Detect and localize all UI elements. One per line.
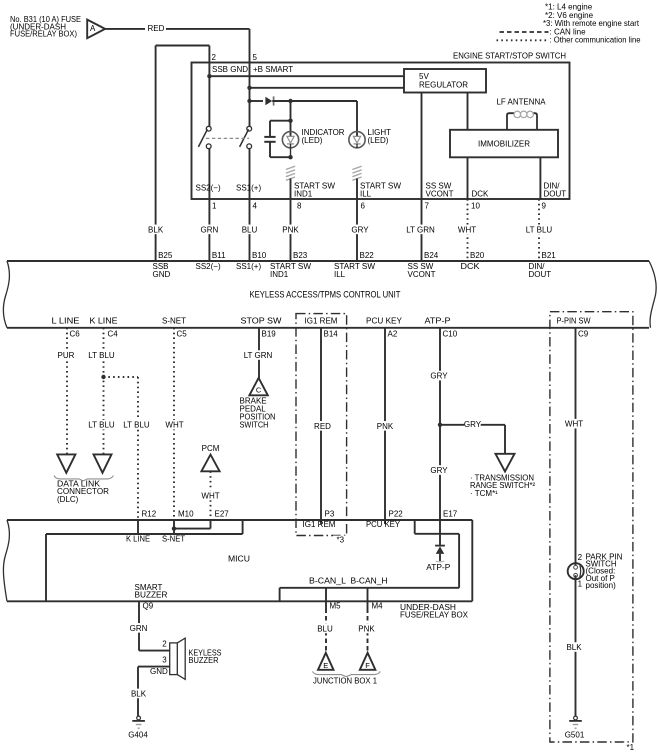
keyless unit band right break edge <box>649 261 656 328</box>
label GRY upper <box>431 371 447 381</box>
svg-text:(LED): (LED) <box>368 136 389 145</box>
wire PUR L LINE to DLC dotted <box>66 328 68 455</box>
svg-text:10: 10 <box>471 202 480 211</box>
wire BLU SS1 to B10 <box>249 199 251 261</box>
label GRY <box>352 225 368 235</box>
svg-text:G501: G501 <box>565 731 585 740</box>
svg-text:BLU: BLU <box>242 225 258 234</box>
terminal E27 <box>210 520 212 529</box>
svg-text:L LINE: L LINE <box>52 317 80 326</box>
svg-text:E17: E17 <box>443 509 458 518</box>
svg-text:position): position) <box>586 581 617 590</box>
label WHT <box>459 225 475 235</box>
label WHT p-pin <box>566 419 582 429</box>
label WHT pcm <box>202 491 218 501</box>
svg-text:S-NET: S-NET <box>162 534 185 543</box>
svg-text:K LINE: K LINE <box>90 317 118 326</box>
LF antenna coil <box>507 113 515 130</box>
label BLU <box>241 225 257 235</box>
light LED <box>356 101 358 137</box>
diode D1 <box>265 97 272 105</box>
svg-text:GND: GND <box>150 667 168 676</box>
svg-text:6: 6 <box>361 202 366 211</box>
svg-text:7: 7 <box>425 202 430 211</box>
svg-text:FUSE/RELAY BOX): FUSE/RELAY BOX) <box>10 30 77 39</box>
svg-text:C10: C10 <box>443 330 458 339</box>
DLC bracket <box>54 476 114 481</box>
junction pin2-regulator <box>207 74 211 78</box>
DLC connector triangle 2 <box>94 454 112 472</box>
connector A triangle <box>87 20 105 39</box>
junction box triangle E <box>318 653 334 670</box>
junction loop bottom <box>288 155 292 159</box>
terminal M10 S-NET <box>173 520 175 534</box>
wire WHT PCM to E27 dotted <box>210 471 212 520</box>
wire PNK PCU KEY to P22 <box>384 328 386 520</box>
svg-text:+B SMART: +B SMART <box>253 65 293 74</box>
micu inner right edge <box>458 534 460 588</box>
terminal R12 K LINE <box>137 520 139 534</box>
svg-text:2: 2 <box>162 639 167 648</box>
wire GRY ILL to B22 <box>356 199 358 261</box>
resistor START SW ILL <box>352 166 361 169</box>
svg-text:GRN: GRN <box>130 624 148 633</box>
label WHT s-net <box>166 420 182 430</box>
svg-text:ENGINE START/STOP SWITCH: ENGINE START/STOP SWITCH <box>453 51 566 61</box>
wire pin5 to diode <box>250 100 264 102</box>
wire GRN smart buzzer <box>138 609 140 651</box>
wire LT GRN STOP SW to brake switch <box>258 328 260 378</box>
label *3 <box>333 536 346 544</box>
svg-text:C4: C4 <box>108 330 119 339</box>
dash-dot box IG1 REM remote start <box>296 314 347 536</box>
svg-text:WHT: WHT <box>201 491 219 500</box>
label GRN buzzer <box>130 623 146 633</box>
svg-text:R12: R12 <box>142 509 157 518</box>
svg-text:PNK: PNK <box>282 225 299 234</box>
svg-text:BLU: BLU <box>317 624 333 633</box>
svg-text:GRY: GRY <box>351 225 369 234</box>
label BLK buzzer <box>130 689 146 699</box>
svg-text:B22: B22 <box>360 251 375 260</box>
svg-text:ATP-P: ATP-P <box>426 563 450 572</box>
micu inner left edge <box>45 534 47 601</box>
wire to buzzer pin 2 <box>139 650 170 652</box>
immobilizer box <box>450 130 558 158</box>
label BLK <box>147 225 163 235</box>
svg-text:1: 1 <box>578 579 583 588</box>
junction pin5-regulator <box>247 86 251 90</box>
svg-text:A: A <box>90 24 96 33</box>
svg-text:KEYLESS ACCESS/TPMS CONTROL UN: KEYLESS ACCESS/TPMS CONTROL UNIT <box>250 290 401 300</box>
label GRY lower <box>431 465 447 475</box>
label PNK <box>282 225 298 235</box>
resistor START SW IND1 <box>286 166 295 169</box>
svg-text:WHT: WHT <box>565 420 583 429</box>
svg-text:STOP SW: STOP SW <box>241 317 282 326</box>
svg-text:B19: B19 <box>262 330 277 339</box>
svg-text:C5: C5 <box>177 330 188 339</box>
indicator LED <box>282 132 298 148</box>
junction loop top <box>288 119 292 123</box>
svg-text:E: E <box>323 661 328 670</box>
svg-text:JUNCTION BOX 1: JUNCTION BOX 1 <box>313 677 378 686</box>
transmission range switch triangle <box>496 454 515 472</box>
svg-text:BLK: BLK <box>131 689 147 698</box>
svg-text:PCU KEY: PCU KEY <box>366 520 401 529</box>
svg-text:PNK: PNK <box>358 624 375 633</box>
brake switch triangle C <box>249 378 267 395</box>
svg-text:REGULATOR: REGULATOR <box>419 81 468 90</box>
svg-text:B10: B10 <box>252 251 267 260</box>
svg-text:BUZZER: BUZZER <box>135 590 168 599</box>
svg-text:VCONT: VCONT <box>408 270 436 279</box>
park pin switch <box>568 563 584 579</box>
svg-text:P22: P22 <box>389 509 404 518</box>
wire E17 to ATP-P diode <box>439 520 441 546</box>
keyless unit band top edge <box>7 260 649 262</box>
label BLU <box>317 624 333 634</box>
wire GRY ATP-P to E17 <box>439 328 441 520</box>
wire PNK IND1 to B23 <box>290 199 292 261</box>
svg-text:C9: C9 <box>578 330 589 339</box>
label LT BLU branch <box>121 420 152 430</box>
svg-text:· TCM*¹: · TCM*¹ <box>470 489 498 498</box>
5V regulator box <box>404 69 486 93</box>
svg-text:GRY: GRY <box>430 372 448 381</box>
svg-text:2: 2 <box>212 53 217 62</box>
svg-text:IND1: IND1 <box>270 270 289 279</box>
label BLK park <box>566 642 582 652</box>
svg-text:LF ANTENNA: LF ANTENNA <box>497 98 547 107</box>
svg-text:M4: M4 <box>372 601 384 610</box>
ground G501 <box>574 716 578 720</box>
label LT GRN <box>405 225 436 235</box>
wire IND column drop <box>290 101 292 137</box>
svg-text:IND1: IND1 <box>294 189 313 198</box>
svg-text:*1: *1 <box>627 743 635 752</box>
svg-text:DCK: DCK <box>461 262 481 271</box>
svg-text:IG1 REM: IG1 REM <box>305 317 338 326</box>
svg-text:P-PIN SW: P-PIN SW <box>557 317 591 326</box>
junction K LINE branch <box>101 375 105 379</box>
svg-text:B11: B11 <box>212 251 226 260</box>
svg-text:SS1(+): SS1(+) <box>236 262 261 271</box>
wire buzzer pin 3 GND <box>138 666 170 668</box>
under-dash fuse/relay box outline <box>7 519 472 521</box>
svg-text:G404: G404 <box>128 731 148 740</box>
wire BLK park switch to G501 <box>575 575 577 716</box>
svg-text:LT BLU: LT BLU <box>526 225 553 234</box>
svg-text:GRY: GRY <box>430 466 448 475</box>
svg-text:BLK: BLK <box>566 643 582 652</box>
label RED ig1 <box>314 421 330 431</box>
terminal M5 B-CAN_L <box>325 588 327 609</box>
svg-text:SS1(+): SS1(+) <box>236 184 261 193</box>
svg-text:DCK: DCK <box>472 189 490 198</box>
terminal M4 B-CAN_H <box>367 588 369 609</box>
svg-text:F: F <box>365 661 370 670</box>
svg-text:B25: B25 <box>158 251 173 260</box>
svg-text:LT GRN: LT GRN <box>406 225 435 234</box>
label *1 box <box>623 743 637 752</box>
legend other communication line sample <box>497 39 549 41</box>
PCM triangle <box>201 455 219 472</box>
wire pin2 loop to BLK column <box>208 46 210 63</box>
wire BLU B-CAN_L dashed <box>325 609 327 653</box>
svg-text:M10: M10 <box>178 509 194 518</box>
wire RED IG1 REM to P3 <box>320 328 322 520</box>
switch SS1 <box>247 126 252 131</box>
dash-dot box P-PIN park pin L4 <box>550 312 633 742</box>
svg-text:DOUT: DOUT <box>529 270 552 279</box>
wire DCK immobilizer to box edge <box>467 157 469 199</box>
keyless unit band left break edge <box>3 261 9 328</box>
junction pin5-diode <box>247 99 251 103</box>
svg-text:GRY: GRY <box>464 420 482 429</box>
svg-text:RED: RED <box>148 24 165 33</box>
junction box triangle F <box>360 653 376 670</box>
wire LT BLU DIN to B21 dotted <box>538 199 540 261</box>
label LT BLU k line upper <box>86 350 117 360</box>
legend CAN line sample <box>500 31 549 33</box>
svg-text:MICU: MICU <box>228 554 250 564</box>
junction diode line at IND column <box>288 99 292 103</box>
wire +B SMART to 5V regulator <box>250 87 405 89</box>
svg-text:BLK: BLK <box>148 225 164 234</box>
micu shelf step <box>279 588 281 602</box>
svg-text:IG1 REM: IG1 REM <box>303 520 336 529</box>
wire diode to LIGHT LED column <box>272 100 357 102</box>
terminal P22 PCU KEY <box>384 520 386 524</box>
svg-text:B21: B21 <box>542 251 557 260</box>
svg-text:LT BLU: LT BLU <box>88 421 115 430</box>
svg-text:B-CAN_L: B-CAN_L <box>309 576 347 585</box>
wire DCK regulator to immobilizer <box>467 93 469 130</box>
svg-text:SS2(−): SS2(−) <box>196 184 221 193</box>
svg-text:DOUT: DOUT <box>544 189 567 198</box>
svg-text:K LINE: K LINE <box>126 534 150 543</box>
capacitor C1 <box>269 121 271 137</box>
micu b-can shelf edge <box>280 587 460 589</box>
label GRY branch <box>464 419 480 429</box>
label LT BLU k line lower <box>86 420 117 430</box>
micu inner top edge <box>46 533 243 535</box>
svg-text:LT GRN: LT GRN <box>244 351 273 360</box>
keyless unit band bottom edge <box>7 327 649 329</box>
svg-text:S-NET: S-NET <box>162 317 186 326</box>
svg-text:B24: B24 <box>424 251 439 260</box>
wire WHT DCK to B20 dotted <box>467 199 469 261</box>
svg-text:1: 1 <box>212 202 217 211</box>
svg-text:ILL: ILL <box>334 270 346 279</box>
svg-text:M5: M5 <box>330 601 342 610</box>
wire capacitor loop bottom <box>270 156 291 158</box>
wire DIN/DOUT immobilizer to box edge <box>539 157 541 199</box>
svg-text:ATP-P: ATP-P <box>425 317 451 326</box>
wire pin2 down to SS2 switch <box>208 63 210 127</box>
svg-text:9: 9 <box>542 202 547 211</box>
svg-text:PCU KEY: PCU KEY <box>366 317 403 326</box>
label GRN <box>201 225 217 235</box>
svg-text:SS2(−): SS2(−) <box>196 262 221 271</box>
terminal Q9 SMART BUZZER <box>138 601 140 608</box>
svg-text:E27: E27 <box>215 509 230 518</box>
diode ATP-P <box>435 545 445 547</box>
svg-text:2: 2 <box>578 553 583 562</box>
svg-text:*3: *3 <box>337 536 345 545</box>
svg-text:VCONT: VCONT <box>426 189 454 198</box>
wire PNK B-CAN_H dashed <box>367 609 369 653</box>
svg-text:5: 5 <box>253 53 258 62</box>
svg-text:4: 4 <box>253 202 258 211</box>
engine start/stop switch box <box>192 63 570 200</box>
svg-text:B14: B14 <box>324 330 339 339</box>
keyless buzzer symbol <box>170 643 178 675</box>
switch SS2 <box>206 126 211 131</box>
svg-text:IMMOBILIZER: IMMOBILIZER <box>478 139 530 149</box>
wire LT BLU K LINE dotted <box>103 328 105 455</box>
svg-text:Q9: Q9 <box>143 601 154 610</box>
svg-text:PCM: PCM <box>202 444 220 453</box>
svg-text:RED: RED <box>314 422 331 431</box>
svg-text:(DLC): (DLC) <box>57 495 79 504</box>
svg-text:SSB GND: SSB GND <box>212 65 248 74</box>
ground G404 <box>137 716 141 720</box>
label PNK pcu key <box>377 421 393 431</box>
DLC connector triangle 1 <box>57 454 75 472</box>
junction GRY branch <box>438 423 442 427</box>
svg-text:GND: GND <box>153 270 171 279</box>
wire GRY branch to transmission range switch <box>440 424 505 426</box>
wire capacitor loop top <box>270 120 291 122</box>
micu inner step up <box>242 520 244 534</box>
svg-text:P3: P3 <box>325 509 335 518</box>
label LT GRN stop sw <box>243 350 274 360</box>
svg-text:8: 8 <box>297 202 302 211</box>
svg-text:3: 3 <box>162 655 167 664</box>
svg-text:(LED): (LED) <box>302 136 323 145</box>
label LT BLU <box>524 225 555 235</box>
svg-text:FUSE/RELAY BOX: FUSE/RELAY BOX <box>400 611 469 620</box>
micu inner notch vertical <box>414 520 416 534</box>
svg-text:: Other communication line: : Other communication line <box>550 36 642 45</box>
terminal P3 IG1 REM <box>320 520 322 524</box>
wire LT GRN VCONT to B24 <box>421 199 423 261</box>
mechanical link SS2-SS1 <box>206 137 249 139</box>
svg-text:BUZZER: BUZZER <box>189 656 219 665</box>
label PNK <box>358 624 374 634</box>
svg-text:LT BLU: LT BLU <box>88 351 115 360</box>
wire SSB GND to 5V regulator <box>209 75 404 77</box>
wire GRN SS2 to B11 <box>208 199 210 261</box>
svg-text:C6: C6 <box>70 330 81 339</box>
svg-text:PUR: PUR <box>58 351 75 360</box>
svg-text:GRN: GRN <box>201 225 219 234</box>
svg-text:SWITCH: SWITCH <box>240 421 269 430</box>
wire WHT P-PIN SW to park switch <box>575 328 577 567</box>
svg-text:C: C <box>256 386 262 395</box>
svg-text:WHT: WHT <box>458 225 476 234</box>
svg-text:ILL: ILL <box>360 189 372 198</box>
svg-text:B20: B20 <box>470 251 485 260</box>
svg-text:LT BLU: LT BLU <box>123 421 150 430</box>
wire K LINE branch to R12 dotted <box>104 376 139 378</box>
svg-text:A2: A2 <box>388 330 398 339</box>
wire SS SW VCONT from regulator <box>421 93 423 200</box>
wire pin5 down to SS1 switch <box>249 63 251 127</box>
svg-text:B-CAN_H: B-CAN_H <box>351 576 388 585</box>
micu inner notch horizontal <box>415 533 459 535</box>
svg-text:WHT: WHT <box>165 421 183 430</box>
svg-text:B23: B23 <box>293 251 308 260</box>
label PUR <box>58 350 74 360</box>
svg-text:PNK: PNK <box>377 422 394 431</box>
wire RED from fuse A to pin 5 <box>105 28 145 30</box>
wire WHT S-NET dotted <box>173 328 175 520</box>
junction box bracket <box>313 671 381 676</box>
